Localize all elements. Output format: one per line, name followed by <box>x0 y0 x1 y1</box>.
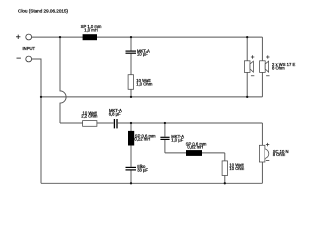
wire input minus lead <box>32 59 41 183</box>
svg-text:2,2 Ohm: 2,2 Ohm <box>81 114 98 119</box>
node dot x131 y123 <box>130 122 132 124</box>
speaker tweeter SC10N <box>259 145 268 162</box>
speaker woofer2 polarity <box>266 55 269 76</box>
wire section2 rail y123 right <box>118 122 263 124</box>
svg-text:33 µF: 33 µF <box>137 167 148 172</box>
svg-text:0,82 mH: 0,82 mH <box>187 145 203 150</box>
svg-text:8 Ohm: 8 Ohm <box>273 152 286 157</box>
node dot x165 y123 <box>164 122 166 124</box>
terminal minus sign <box>17 57 21 59</box>
svg-text:0,22 mH: 0,22 mH <box>134 137 150 142</box>
node dot x131 top rail <box>130 36 132 38</box>
speaker tweeter polarity <box>266 143 269 161</box>
svg-text:10 Ohm: 10 Ohm <box>229 166 244 171</box>
node dot x224.8 ground <box>224 182 226 184</box>
svg-text:INPUT: INPUT <box>23 46 36 51</box>
capacitor Elko 33uF <box>126 167 137 170</box>
wire top rail <box>32 36 263 38</box>
wire ground rail <box>41 182 262 184</box>
node dot x131 ground <box>130 182 132 184</box>
svg-text:10 µF: 10 µF <box>137 52 148 57</box>
wire branch x131 lower <box>130 123 132 167</box>
inductor L2 SP 0,6mm 0,22mH <box>128 131 134 146</box>
node dot x41 mid rail <box>40 96 42 98</box>
wire notch rail y153 <box>165 152 225 154</box>
wire woofer2 branch <box>261 37 263 61</box>
wire section2 rail y123 left <box>60 122 114 124</box>
speaker woofer2 <box>260 61 269 73</box>
svg-text:1,0 Ohm: 1,0 Ohm <box>136 81 153 86</box>
wire woofer1 branch <box>246 37 248 61</box>
terminal circle minus <box>26 56 32 62</box>
wire vertical x60 with hop <box>60 37 66 123</box>
inductor L3 SP 0,6mm 0,82mH <box>186 150 202 156</box>
capacitor C1 MKT-A 10uF <box>126 51 137 53</box>
svg-text:1,0 µF: 1,0 µF <box>171 137 183 142</box>
terminal circle plus <box>26 34 32 40</box>
svg-text:Clou (Stand 29.06.2015): Clou (Stand 29.06.2015) <box>18 8 69 13</box>
wire resistor drop x224.8 <box>224 153 226 183</box>
node dot x247 mid rail <box>246 96 248 98</box>
speaker woofer1 <box>244 61 253 73</box>
wire mid rail y97 <box>41 96 262 98</box>
node dot x247 top rail <box>246 36 248 38</box>
speaker woofer1 polarity <box>251 55 254 76</box>
resistor R2 10W 2,2Ohm <box>83 121 97 127</box>
svg-text:1,0 mH: 1,0 mH <box>84 27 98 32</box>
capacitor C2 MKT-A 6,8uF <box>114 119 117 128</box>
capacitor C3 MKT-A 1,0uF <box>160 137 169 139</box>
resistor R1 10W 1,0Ohm <box>128 75 133 90</box>
node dot x131 mid rail <box>130 96 132 98</box>
node dot x60 top rail <box>59 36 61 38</box>
wire tweeter branch <box>261 123 263 145</box>
resistor R3 10W 10Ohm <box>222 161 227 176</box>
wire branch x165 <box>164 123 166 137</box>
inductor L1 SP 1,0mm 1,0mH <box>83 34 97 40</box>
terminal plus sign <box>16 35 20 39</box>
svg-text:6,8 µF: 6,8 µF <box>109 112 121 117</box>
wire branch x131 upper <box>130 37 132 50</box>
svg-text:8 Ohm: 8 Ohm <box>272 66 285 71</box>
